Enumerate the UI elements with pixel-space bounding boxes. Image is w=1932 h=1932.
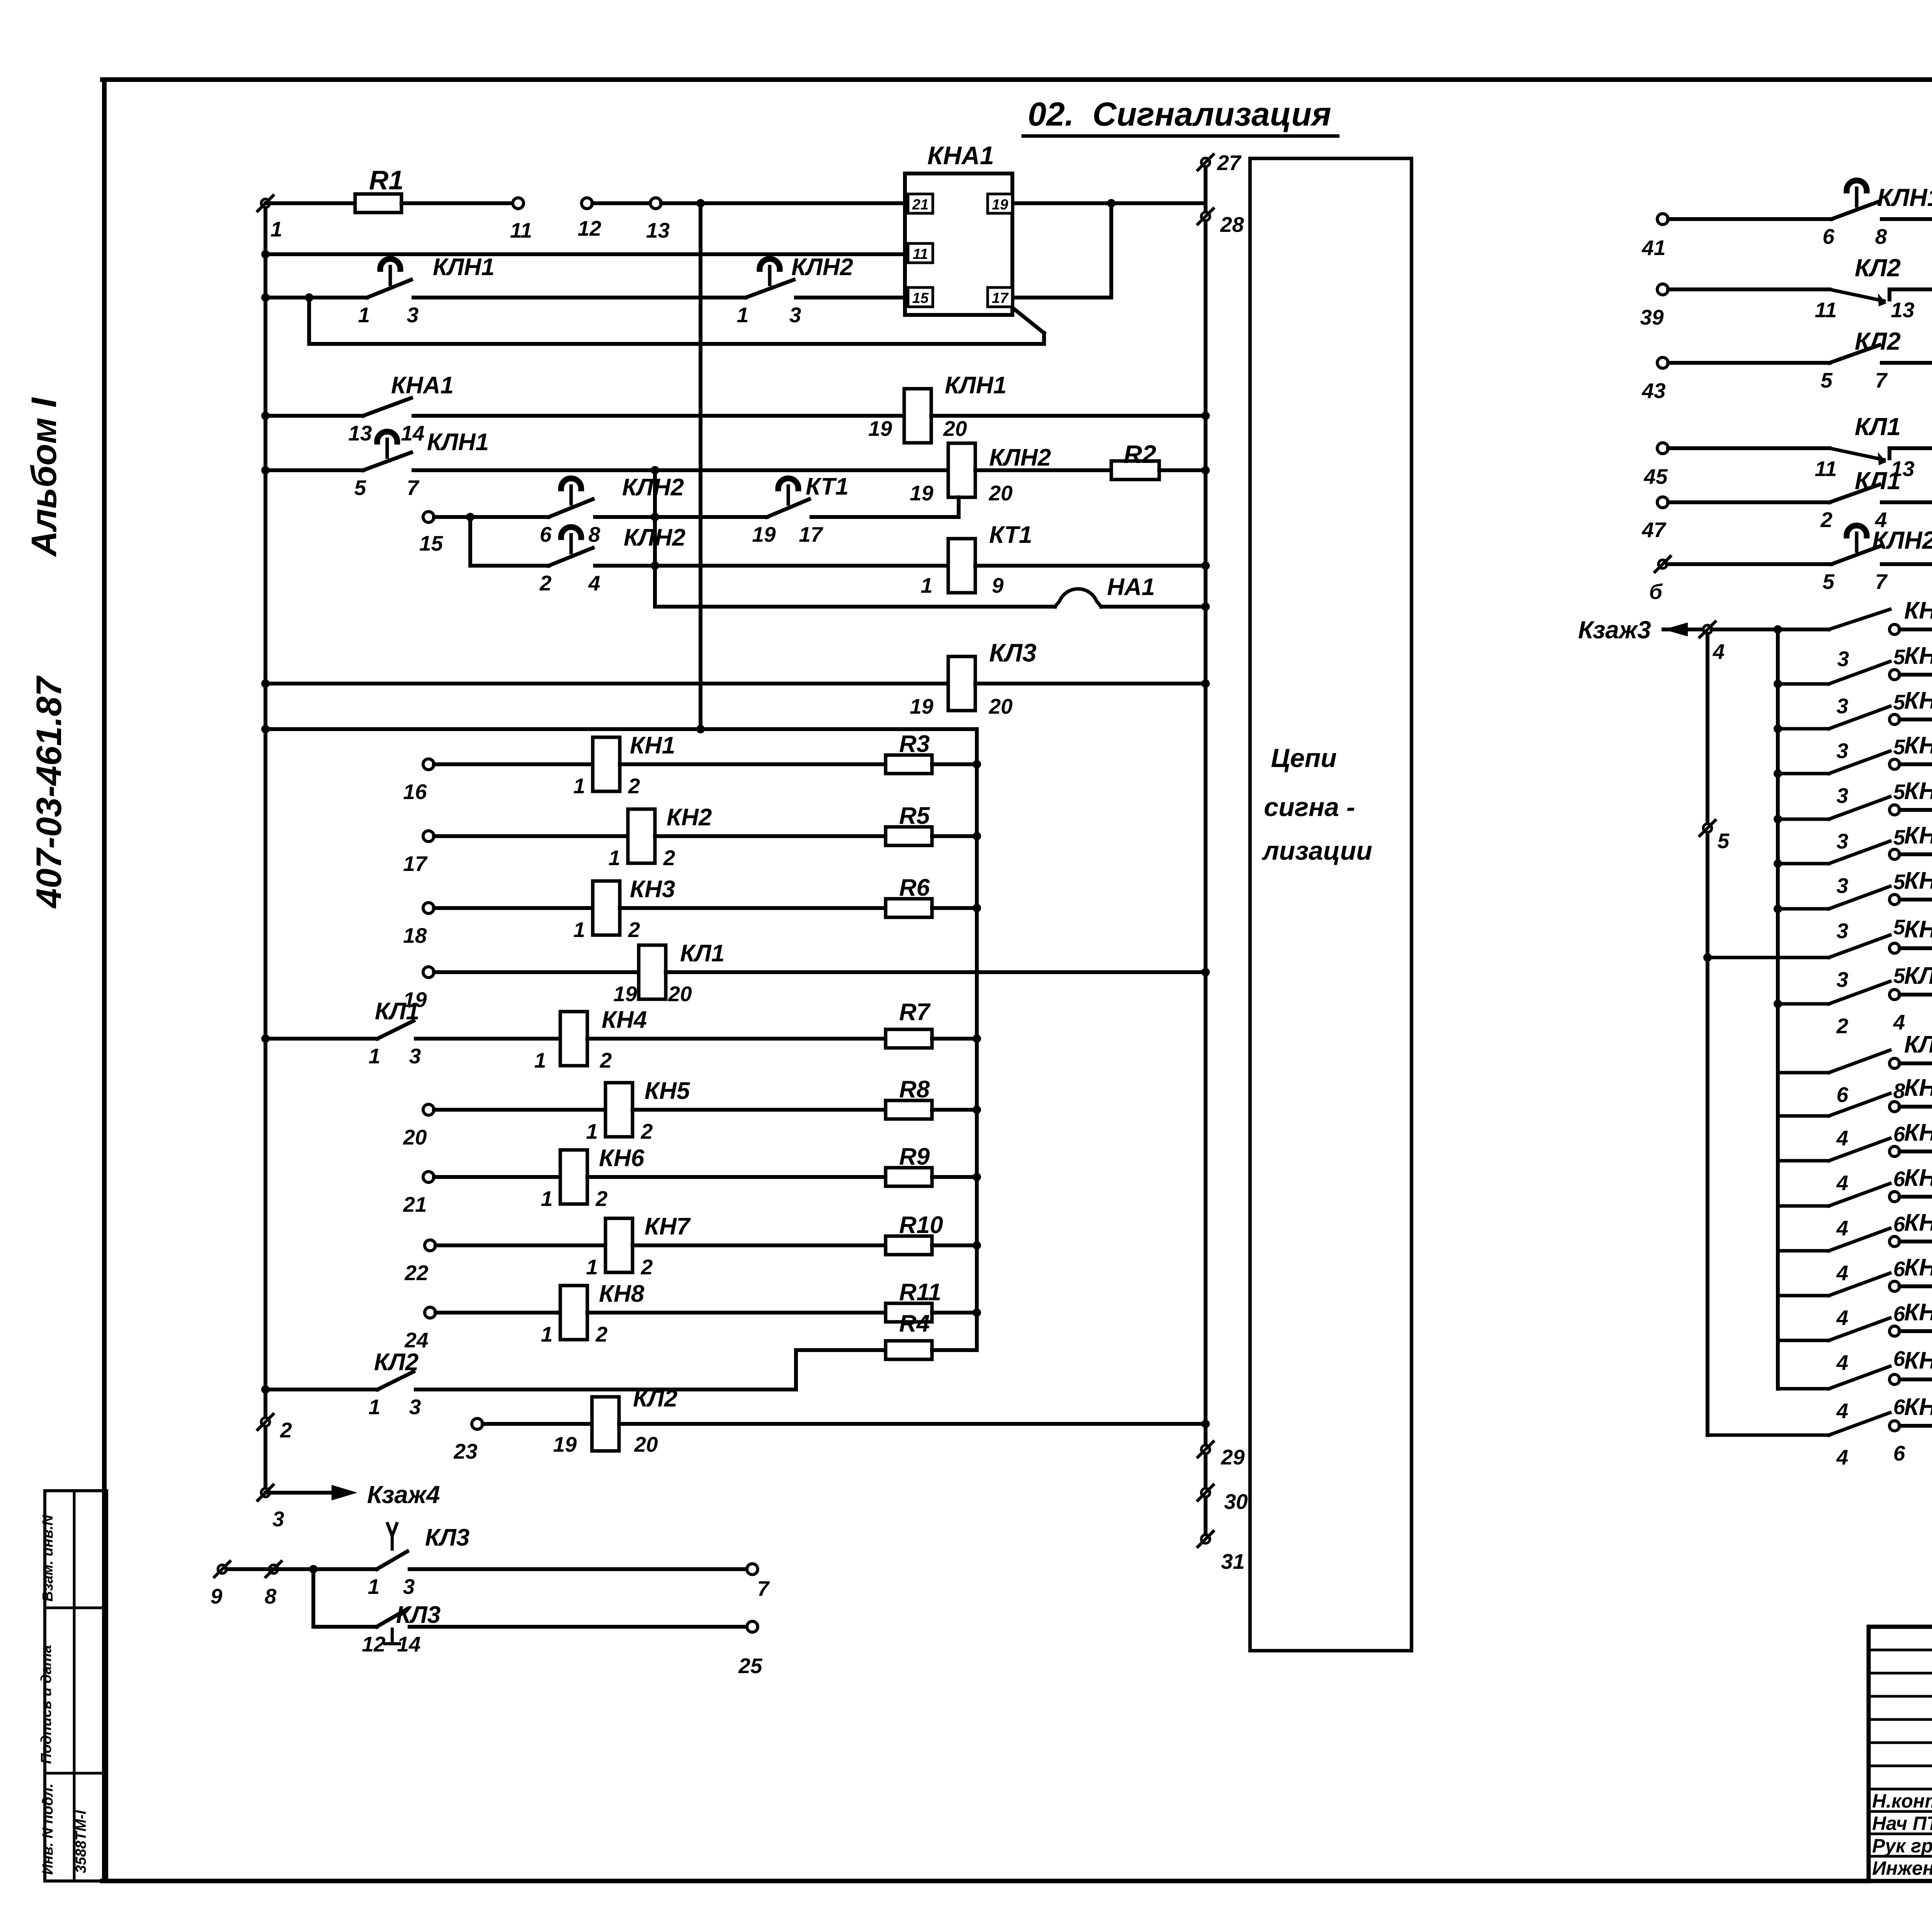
svg-text:КЛН2: КЛН2 [622, 474, 684, 501]
svg-text:1: 1 [737, 303, 749, 327]
svg-text:2: 2 [641, 1119, 653, 1143]
svg-text:11: 11 [1815, 457, 1837, 481]
svg-text:КЛ3: КЛ3 [989, 638, 1037, 667]
svg-text:18: 18 [403, 923, 427, 947]
svg-text:НА1: НА1 [1107, 574, 1155, 600]
svg-text:КЛ1: КЛ1 [375, 998, 419, 1025]
svg-text:Кзаж3: Кзаж3 [1578, 616, 1651, 644]
svg-text:КНА1: КНА1 [927, 141, 994, 170]
svg-text:17: 17 [403, 852, 428, 876]
svg-text:КЛ3: КЛ3 [425, 1524, 469, 1551]
svg-text:КЛ1: КЛ1 [1855, 413, 1901, 440]
svg-text:4: 4 [588, 571, 600, 595]
svg-text:24: 24 [404, 1328, 428, 1352]
svg-text:4: 4 [1836, 1399, 1849, 1423]
svg-text:3: 3 [789, 303, 801, 327]
svg-text:11: 11 [1815, 298, 1837, 322]
svg-text:4: 4 [1836, 1350, 1849, 1374]
svg-text:5: 5 [1893, 964, 1906, 988]
svg-text:407-03-461.87: 407-03-461.87 [29, 675, 69, 909]
svg-text:КТ1: КТ1 [989, 522, 1032, 548]
svg-text:2: 2 [1836, 1014, 1849, 1038]
svg-text:31: 31 [1221, 1549, 1245, 1573]
svg-text:19: 19 [910, 481, 934, 505]
svg-text:КЛ1: КЛ1 [1855, 467, 1901, 495]
svg-text:6: 6 [1893, 1347, 1905, 1371]
svg-text:20: 20 [988, 694, 1013, 718]
svg-text:1: 1 [586, 1119, 598, 1143]
svg-text:КН8: КН8 [1904, 916, 1932, 943]
svg-text:20: 20 [668, 982, 692, 1006]
svg-text:2: 2 [595, 1322, 608, 1346]
svg-text:1: 1 [270, 217, 282, 241]
svg-text:11: 11 [510, 218, 532, 242]
svg-text:3: 3 [409, 1044, 421, 1068]
svg-text:Подпись и дата: Подпись и дата [38, 1645, 54, 1764]
svg-text:Кзаж4: Кзаж4 [367, 1481, 440, 1509]
svg-text:45: 45 [1643, 464, 1668, 488]
svg-text:5: 5 [1893, 690, 1906, 714]
svg-text:2: 2 [600, 1048, 612, 1072]
svg-text:сигна -: сигна - [1264, 793, 1355, 822]
svg-text:22: 22 [404, 1261, 429, 1285]
svg-text:13: 13 [646, 218, 670, 242]
svg-text:1: 1 [534, 1048, 546, 1072]
svg-text:6: 6 [1823, 224, 1835, 248]
svg-text:15: 15 [419, 531, 444, 555]
svg-text:2: 2 [641, 1255, 653, 1279]
svg-text:Рук гр: Рук гр [1872, 1835, 1932, 1857]
svg-text:6: 6 [1893, 1257, 1905, 1281]
svg-text:6: 6 [1893, 1302, 1905, 1326]
svg-text:1: 1 [368, 1575, 380, 1599]
svg-text:КЛ2: КЛ2 [374, 1349, 418, 1376]
svg-text:R8: R8 [899, 1076, 930, 1103]
svg-text:5: 5 [1893, 915, 1906, 939]
svg-text:КН6: КН6 [599, 1145, 645, 1172]
svg-text:2: 2 [280, 1418, 292, 1442]
svg-text:КН6: КН6 [1904, 1299, 1932, 1326]
svg-text:КН4: КН4 [1904, 732, 1932, 759]
svg-text:КН5: КН5 [1904, 1254, 1932, 1281]
svg-text:9: 9 [992, 573, 1004, 597]
svg-text:КН5: КН5 [1904, 778, 1932, 804]
svg-text:КЛ1: КЛ1 [680, 940, 724, 967]
svg-text:8: 8 [1875, 224, 1887, 248]
svg-text:12: 12 [578, 216, 602, 240]
svg-text:Инжен: Инжен [1872, 1857, 1932, 1879]
svg-text:7: 7 [1875, 368, 1888, 392]
svg-text:6: 6 [1893, 1167, 1905, 1191]
svg-text:1: 1 [541, 1187, 553, 1211]
svg-text:3: 3 [1837, 694, 1849, 718]
svg-text:4: 4 [1836, 1306, 1849, 1330]
svg-text:4: 4 [1836, 1126, 1849, 1150]
svg-text:19: 19 [868, 417, 892, 440]
svg-text:КЛ2: КЛ2 [1855, 327, 1901, 355]
svg-text:КН3: КН3 [1904, 687, 1932, 714]
svg-text:1: 1 [541, 1322, 553, 1346]
svg-text:14: 14 [401, 421, 424, 445]
svg-text:КЛ2: КЛ2 [633, 1385, 677, 1412]
svg-text:2: 2 [539, 571, 552, 595]
svg-text:19: 19 [910, 694, 934, 718]
svg-text:6: 6 [1893, 1395, 1905, 1419]
svg-text:КЛН1: КЛН1 [1877, 184, 1932, 211]
svg-text:3: 3 [272, 1507, 284, 1531]
svg-text:КН7: КН7 [1904, 867, 1932, 894]
svg-text:12: 12 [362, 1632, 386, 1656]
svg-text:19: 19 [752, 522, 776, 546]
svg-text:5: 5 [1893, 870, 1906, 894]
svg-text:КЛН2: КЛН2 [1872, 526, 1932, 554]
svg-text:21: 21 [403, 1192, 427, 1216]
svg-text:3: 3 [407, 303, 419, 327]
svg-text:1: 1 [921, 573, 933, 597]
svg-text:3: 3 [1837, 874, 1849, 898]
svg-text:Цепи: Цепи [1271, 743, 1337, 773]
svg-text:7: 7 [407, 476, 420, 500]
svg-text:4: 4 [1836, 1261, 1849, 1285]
svg-text:11: 11 [913, 246, 928, 262]
svg-text:16: 16 [403, 780, 427, 804]
svg-text:3: 3 [1837, 968, 1849, 992]
svg-text:3: 3 [1837, 739, 1849, 763]
svg-text:лизации: лизации [1262, 836, 1372, 866]
svg-text:КН4: КН4 [1904, 1209, 1932, 1236]
svg-text:КН5: КН5 [645, 1078, 690, 1104]
svg-text:27: 27 [1217, 151, 1242, 175]
svg-text:1: 1 [609, 846, 621, 870]
svg-text:5: 5 [1718, 829, 1730, 853]
svg-text:5: 5 [354, 476, 367, 500]
svg-text:8: 8 [1893, 1079, 1905, 1103]
svg-text:6: 6 [1893, 1441, 1905, 1465]
svg-text:КЛН2: КЛН2 [624, 524, 685, 551]
svg-text:КН7: КН7 [645, 1213, 691, 1240]
svg-text:47: 47 [1641, 518, 1667, 542]
svg-text:КЛ2: КЛ2 [1904, 963, 1932, 989]
svg-text:КН8: КН8 [1904, 1394, 1932, 1420]
svg-text:6: 6 [1837, 1083, 1849, 1107]
svg-text:КН1: КН1 [630, 732, 675, 759]
svg-text:25: 25 [738, 1654, 763, 1678]
svg-text:2: 2 [628, 774, 640, 798]
svg-text:R3: R3 [899, 731, 930, 757]
svg-text:13: 13 [1891, 298, 1914, 322]
svg-text:2: 2 [595, 1187, 608, 1211]
svg-text:3: 3 [1837, 784, 1849, 808]
svg-text:R11: R11 [899, 1279, 941, 1306]
svg-text:19: 19 [613, 982, 637, 1006]
svg-text:4: 4 [1836, 1216, 1849, 1240]
svg-text:23: 23 [453, 1439, 477, 1463]
svg-text:КЛН2: КЛН2 [791, 254, 853, 281]
svg-text:3: 3 [1837, 647, 1849, 671]
svg-text:КЛН1: КЛН1 [433, 254, 495, 281]
svg-text:5: 5 [1893, 645, 1906, 669]
svg-text:17: 17 [799, 522, 823, 546]
svg-text:R1: R1 [369, 165, 403, 195]
svg-text:R5: R5 [899, 803, 930, 829]
svg-text:1: 1 [586, 1255, 598, 1279]
svg-text:20: 20 [403, 1125, 427, 1149]
svg-text:20: 20 [988, 481, 1013, 505]
svg-text:4: 4 [1836, 1171, 1849, 1195]
svg-text:КНА1: КНА1 [391, 372, 454, 399]
svg-text:R2: R2 [1124, 440, 1156, 468]
svg-text:3: 3 [1837, 829, 1849, 853]
svg-text:КН2: КН2 [667, 804, 712, 831]
svg-text:КЛ3: КЛ3 [396, 1602, 440, 1628]
svg-text:1: 1 [369, 1395, 381, 1419]
svg-text:КН7: КН7 [1904, 1347, 1932, 1374]
svg-text:8: 8 [588, 522, 600, 546]
svg-text:1: 1 [573, 918, 585, 942]
svg-text:КЛ2: КЛ2 [1855, 254, 1901, 282]
svg-text:R9: R9 [899, 1143, 930, 1170]
svg-text:Взам. инв.N: Взам. инв.N [40, 1514, 56, 1602]
svg-text:41: 41 [1641, 236, 1665, 260]
svg-text:5: 5 [1893, 735, 1906, 759]
svg-text:2: 2 [628, 918, 640, 942]
svg-text:17: 17 [992, 290, 1009, 306]
svg-text:КН1: КН1 [1904, 1075, 1932, 1101]
svg-text:7: 7 [1875, 570, 1888, 594]
svg-text:КН3: КН3 [1904, 1165, 1932, 1191]
svg-text:R4: R4 [899, 1310, 930, 1337]
svg-text:3: 3 [409, 1395, 421, 1419]
svg-text:Инв. N подл.: Инв. N подл. [40, 1784, 56, 1875]
svg-text:20: 20 [943, 417, 967, 440]
svg-text:R7: R7 [899, 999, 931, 1026]
svg-text:КН1: КН1 [1904, 597, 1932, 624]
svg-text:2: 2 [663, 846, 675, 870]
svg-text:КЛН1: КЛН1 [945, 372, 1007, 399]
svg-text:КН2: КН2 [1904, 643, 1932, 669]
svg-text:Нач ПТП: Нач ПТП [1872, 1813, 1932, 1834]
svg-text:15: 15 [912, 290, 929, 306]
svg-text:КН2: КН2 [1904, 1119, 1932, 1146]
svg-text:29: 29 [1221, 1445, 1245, 1469]
svg-text:02. Сигнализация: 02. Сигнализация [1028, 96, 1331, 133]
svg-text:21: 21 [912, 197, 929, 213]
svg-text:2: 2 [1820, 508, 1833, 532]
svg-text:13: 13 [348, 421, 372, 445]
svg-text:6: 6 [1893, 1212, 1905, 1236]
svg-text:КЛ2: КЛ2 [1904, 1031, 1932, 1058]
svg-text:КЛН1: КЛН1 [427, 429, 489, 456]
svg-text:43: 43 [1641, 379, 1665, 403]
svg-text:28: 28 [1220, 213, 1244, 236]
svg-text:39: 39 [1640, 305, 1664, 329]
svg-text:20: 20 [634, 1432, 658, 1456]
svg-text:3588ТМ-I: 3588ТМ-I [73, 1810, 89, 1873]
svg-text:6: 6 [1893, 1122, 1905, 1146]
svg-text:R6: R6 [899, 874, 930, 901]
svg-text:4: 4 [1893, 1010, 1905, 1034]
svg-text:30: 30 [1224, 1490, 1248, 1514]
svg-text:7: 7 [757, 1577, 770, 1600]
svg-text:19: 19 [992, 197, 1008, 213]
svg-text:19: 19 [553, 1432, 577, 1456]
svg-text:б: б [1649, 580, 1663, 604]
svg-text:1: 1 [369, 1044, 381, 1068]
svg-text:Альбом I: Альбом I [24, 397, 64, 557]
svg-text:5: 5 [1893, 825, 1906, 849]
svg-text:6: 6 [540, 522, 552, 546]
svg-text:5: 5 [1893, 780, 1906, 804]
svg-text:КЛН2: КЛН2 [989, 444, 1051, 471]
svg-text:КН8: КН8 [599, 1281, 645, 1307]
svg-text:КН6: КН6 [1904, 822, 1932, 849]
svg-text:8: 8 [265, 1584, 277, 1608]
svg-text:3: 3 [1837, 919, 1849, 943]
svg-text:Н.контр: Н.контр [1872, 1790, 1932, 1812]
svg-text:КТ1: КТ1 [806, 473, 849, 500]
svg-text:1: 1 [358, 303, 370, 327]
svg-text:КН4: КН4 [602, 1007, 647, 1033]
svg-text:1: 1 [573, 774, 585, 798]
svg-text:5: 5 [1823, 570, 1835, 594]
svg-text:КН3: КН3 [630, 876, 675, 903]
svg-text:3: 3 [403, 1575, 415, 1599]
svg-text:4: 4 [1836, 1445, 1849, 1469]
svg-text:9: 9 [211, 1584, 223, 1608]
svg-text:R10: R10 [899, 1212, 943, 1238]
svg-text:4: 4 [1713, 639, 1725, 663]
svg-text:5: 5 [1821, 368, 1833, 392]
